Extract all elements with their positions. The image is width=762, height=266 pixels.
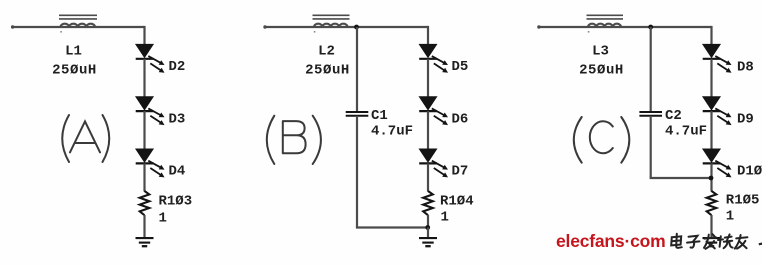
- label (B): [267, 116, 321, 164]
- svg-text:1: 1: [726, 209, 734, 225]
- wire: input feed of circuit B: [263, 25, 428, 28]
- ground of circuit B: [419, 228, 437, 247]
- watermark char 友: [735, 235, 748, 249]
- wire: C1 bottom plate down to return: [356, 116, 358, 228]
- wire: D4 cathode to R103: [143, 163, 145, 191]
- svg-text:L1: L1: [65, 44, 82, 60]
- wire: L1 output down to D2 anode: [143, 26, 145, 47]
- resistor R105: [707, 191, 717, 215]
- LED D6: [419, 97, 448, 125]
- capacitor C2: [639, 112, 662, 116]
- wire: D3 cathode to D4 anode: [143, 111, 145, 151]
- svg-text:D5: D5: [452, 59, 469, 75]
- label (C): [574, 117, 629, 163]
- wire: junction down to D8 anode: [710, 26, 712, 47]
- LED D5: [419, 44, 448, 72]
- watermark char 电: [671, 234, 682, 248]
- LED D7: [419, 149, 448, 177]
- svg-text:D1Ø: D1Ø: [737, 164, 762, 180]
- watermark char 发: [704, 234, 716, 249]
- svg-text:D2: D2: [169, 59, 186, 75]
- capacitor C1: [346, 112, 369, 116]
- junction node: R104 / C1 return / ground: [425, 215, 430, 230]
- LED D4: [136, 149, 165, 177]
- wire: junction down to D5 anode: [427, 26, 429, 47]
- LED D10: [703, 149, 732, 177]
- wire: D5 cathode to D6 anode: [427, 59, 429, 99]
- svg-text:D4: D4: [169, 164, 186, 180]
- LED D9: [703, 97, 732, 125]
- inductor L2: [313, 15, 350, 32]
- svg-text:25ØuH: 25ØuH: [52, 63, 97, 79]
- svg-text:R1Ø4: R1Ø4: [440, 193, 474, 209]
- junction node: L2 / C1 / LED string: [354, 25, 359, 30]
- svg-text:D7: D7: [452, 164, 469, 180]
- svg-text:1: 1: [159, 211, 167, 227]
- wire: junction down to C1 top plate: [356, 27, 358, 112]
- resistor R104: [423, 191, 433, 215]
- svg-text:L3: L3: [592, 44, 609, 60]
- wire: C2 return across to D10 cathode node: [650, 177, 712, 179]
- svg-text:C1: C1: [371, 108, 388, 124]
- svg-text:R1Ø3: R1Ø3: [159, 194, 193, 210]
- wire: C2 bottom plate down to LED return: [650, 116, 652, 178]
- resistor R103: [140, 191, 150, 215]
- svg-text:L2: L2: [318, 44, 335, 60]
- svg-text:D3: D3: [169, 111, 186, 127]
- svg-text:25ØuH: 25ØuH: [579, 63, 624, 79]
- inductor L3: [587, 15, 624, 32]
- svg-text:R1Ø5: R1Ø5: [726, 193, 760, 209]
- svg-text:D6: D6: [452, 111, 469, 127]
- wire: D7 cathode to R104: [427, 163, 429, 191]
- LED D8: [703, 44, 732, 72]
- LED D2: [136, 44, 165, 72]
- wire: D6 cathode to D7 anode: [427, 111, 429, 151]
- LED D3: [136, 97, 165, 125]
- svg-text:D9: D9: [737, 112, 754, 128]
- wire: input feed of circuit A: [11, 25, 145, 28]
- wire: junction down to C2 top plate: [650, 27, 652, 112]
- wire: D2 cathode to D3 anode: [143, 59, 145, 99]
- svg-text:1: 1: [441, 209, 449, 225]
- wire: D8 cathode to D9 anode: [710, 59, 712, 99]
- svg-text:elecfans·com: elecfans·com: [556, 231, 665, 251]
- wire: input feed of circuit C: [537, 25, 711, 28]
- watermark partial char at right edge: [759, 242, 762, 245]
- junction node: L3 / C2 / LED string: [648, 25, 653, 30]
- svg-text:4.7uF: 4.7uF: [371, 124, 413, 140]
- label (A): [62, 115, 109, 162]
- inductor L1: [59, 15, 97, 32]
- svg-text:4.7uF: 4.7uF: [665, 124, 707, 140]
- junction node: D10 cathode / C2 return / R105: [709, 163, 714, 191]
- svg-text:C2: C2: [665, 108, 682, 124]
- ground of circuit A: [136, 215, 154, 246]
- svg-text:25ØuH: 25ØuH: [305, 63, 350, 79]
- ground of circuit C: [703, 215, 721, 246]
- wire: bottom return of circuit B: [356, 226, 428, 228]
- watermark char 烧: [718, 234, 733, 248]
- wire: D9 cathode to D10 anode: [710, 111, 712, 151]
- watermark char 子: [687, 236, 700, 248]
- svg-text:D8: D8: [737, 60, 754, 76]
